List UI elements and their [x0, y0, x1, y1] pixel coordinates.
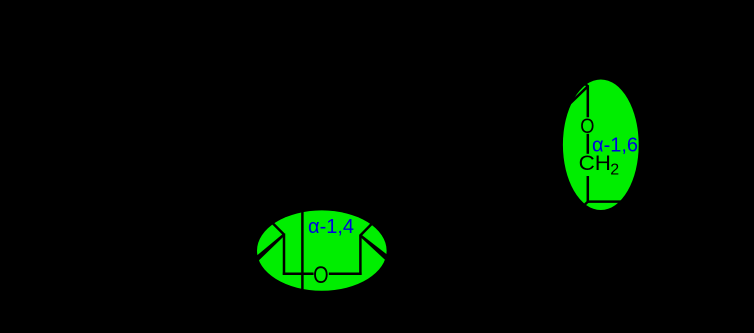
svg-text:2: 2: [610, 162, 619, 179]
svg-text:α-1,4: α-1,4: [308, 216, 354, 238]
alpha-1,6 bond: C1 of T2 down to O6 (vertical): [587, 85, 590, 117]
glucose ring B2: hexagon back edges (invisible on black): [378, 218, 428, 239]
highlight ellipse (alpha-1,4 glycosidic bond): [257, 210, 387, 290]
glucose ring B1: bond C1-O1 (vertical down from C1): [283, 234, 286, 275]
glucose ring B2: bond C4-C5 (thin diagonal, right of alpha-1,4 ellipse): [360, 218, 378, 236]
glucose ring B3: hexagon remaining edges (invisible on black): [575, 201, 648, 241]
alpha-1,6 bond: CH2 down to C5 of ring B3 (vertical): [587, 176, 590, 203]
glucose ring B1: bond C1-O5 (thin diagonal, left of alpha-1,4 ellipse): [263, 214, 284, 235]
svg-text:CH: CH: [579, 152, 611, 175]
bond O1 to glycosidic O (horizontal, left segment): [283, 272, 314, 275]
glucose ring B3: bond C5-O5 (horizontal top edge): [587, 200, 632, 203]
highlight ellipse (alpha-1,6 glycosidic bond): [563, 79, 639, 210]
glucose ring B3: bond C5-C4 (diagonal, bottom of alpha-1,6 ellipse): [575, 202, 588, 214]
glucose ring B1: hexagon back edges (invisible on black): [216, 214, 263, 235]
glucose ring T2: bond C1-C2 (diagonal, top of alpha-1,6 ellipse): [567, 86, 588, 106]
substituent bond on ring B1 C2 (long vertical through ellipse): [301, 203, 304, 300]
svg-text:O: O: [313, 262, 329, 289]
bond glycosidic O to C4 of ring B2 (horizontal, right segment): [329, 272, 362, 275]
glucose ring T2: hexagon back edges (invisible on black): [520, 66, 588, 107]
glucose ring B2: bold bond C4-C3 (tapered wedge): [360, 235, 389, 260]
glucose ring B1: bold bond C1-C2 (tapered wedge): [254, 234, 285, 262]
bond up to C4 of ring B2 (vertical): [359, 235, 362, 275]
alpha-1,6 bond: O6 down to CH2 (vertical): [587, 134, 590, 154]
